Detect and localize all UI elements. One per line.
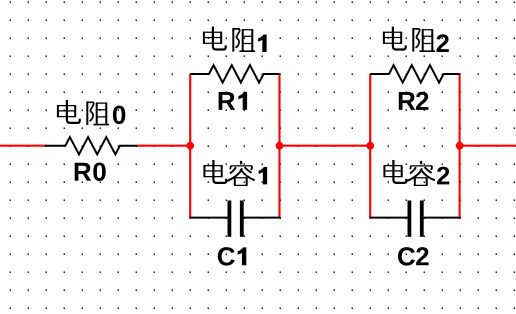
- capacitor C1: [189, 201, 280, 237]
- digit 0 of label dianzu0: [113, 106, 125, 125]
- label 电容1: char 容: [227, 161, 255, 186]
- label 电容1 (for C1): char 电: [204, 160, 227, 183]
- wire: node B to node C: [280, 145, 371, 147]
- digit 2 of label dianzu2: [437, 34, 449, 52]
- wire: block1 right vertical: [278, 74, 280, 218]
- value label R1: [219, 92, 247, 110]
- digit 1 of label dianrong1: [259, 167, 268, 185]
- label 电容2: char 容: [407, 161, 435, 186]
- wire: block2 left vertical: [369, 74, 371, 218]
- label 电阻2: char 阻: [413, 28, 435, 52]
- node C junction: [366, 142, 374, 150]
- label 电阻2 (for R2): char 电: [383, 27, 406, 50]
- label 电阻0: char 阻: [87, 101, 109, 125]
- digit 2 of label dianrong2: [437, 167, 449, 185]
- digit 1 of label dianzu1: [258, 34, 267, 52]
- wire: block1 left vertical: [189, 74, 191, 218]
- node D junction: [456, 142, 464, 150]
- label 电阻0 (for R0): char 电: [57, 100, 79, 123]
- label 电阻1: char 阻: [233, 28, 255, 52]
- label 电阻1 (for R1): char 电: [203, 27, 226, 50]
- resistor R0: [45, 137, 138, 154]
- resistor R2: [370, 65, 459, 82]
- capacitor C2: [369, 201, 460, 237]
- value label C1: [218, 247, 246, 266]
- label 电容2 (for C2): char 电: [384, 160, 407, 183]
- wire: R0 to node A: [137, 145, 190, 147]
- node B junction: [276, 142, 284, 150]
- wire: node D to right edge: [460, 145, 516, 147]
- node A junction: [186, 142, 194, 150]
- resistor R1: [190, 65, 279, 82]
- value label R2: [399, 92, 429, 110]
- wire: main net left segment: [0, 145, 46, 147]
- wire: block2 right vertical: [459, 74, 461, 218]
- value label C2: [398, 247, 429, 266]
- value label R0: [75, 163, 106, 182]
